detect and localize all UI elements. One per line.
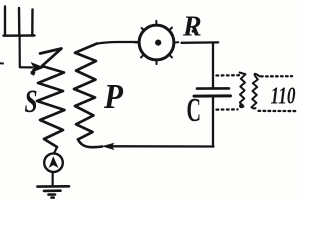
wire right vertical upper <box>212 43 214 88</box>
arrow antenna tap <box>31 62 45 73</box>
ink specks under R <box>185 32 187 34</box>
ground <box>38 186 70 197</box>
capacitor C top plate <box>197 87 229 90</box>
wire dashed cap top tap <box>217 74 240 77</box>
svg-text:110: 110 <box>271 83 296 110</box>
ammeter A <box>44 153 63 172</box>
wire dashed cap bottom tap <box>217 108 238 110</box>
coil S <box>37 49 65 148</box>
svg-text:C: C <box>187 92 202 129</box>
svg-text:S: S <box>25 84 38 120</box>
arrow bottom wire <box>102 143 115 150</box>
wire S to ammeter <box>54 147 57 154</box>
wire dashed 110 bottom <box>259 110 299 112</box>
speck left edge <box>0 62 3 64</box>
svg-text:P: P <box>103 77 123 116</box>
wire R to right corner <box>182 41 219 44</box>
wire P top to R <box>96 42 138 44</box>
inductor squiggle right (primary) <box>252 74 260 109</box>
wire ammeter to ground <box>51 172 53 186</box>
wire right vertical lower <box>212 97 214 147</box>
wire antenna lead-in <box>20 36 32 68</box>
capacitor C bottom plate <box>194 94 231 97</box>
wire dashed 110 top <box>261 75 292 78</box>
wire bottom return <box>113 145 214 147</box>
svg-text:R: R <box>182 12 202 43</box>
coil P <box>74 44 97 140</box>
wire P bottom curve <box>78 139 102 147</box>
antenna (counterpoise comb) <box>4 7 35 36</box>
inductor squiggle left (secondary) <box>240 73 246 107</box>
variable resistor R (circle with ticks) <box>139 25 174 60</box>
